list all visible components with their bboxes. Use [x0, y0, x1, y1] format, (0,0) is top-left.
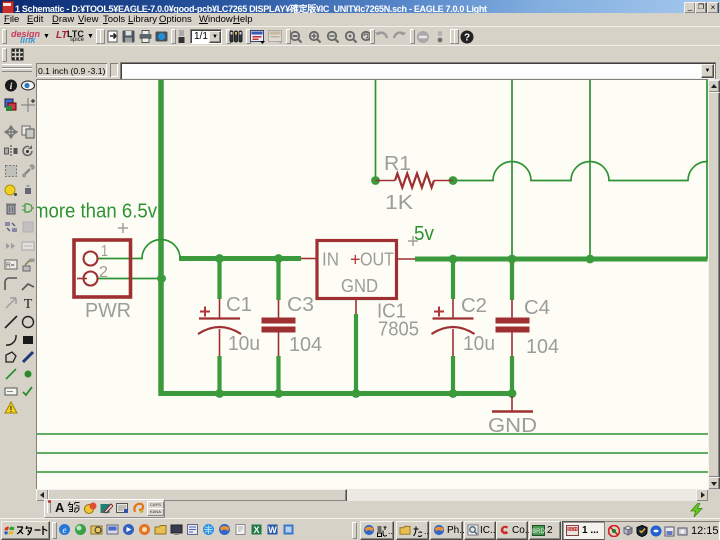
svg-text:GND: GND — [341, 276, 378, 296]
wire — [4, 315, 18, 329]
frame border line 1 — [37, 433, 708, 435]
IC1 input pin stub — [301, 258, 317, 260]
text more than 6.5v — [33, 200, 158, 223]
design link logo — [11, 29, 40, 39]
name — [21, 239, 35, 253]
svg-text:104: 104 — [289, 334, 322, 356]
svg-text:2: 2 — [99, 264, 108, 281]
miter — [4, 277, 18, 291]
svg-text:IN: IN — [322, 250, 339, 270]
command input — [120, 62, 716, 80]
invoke — [4, 296, 18, 310]
copy — [21, 125, 35, 139]
text 5v — [414, 223, 434, 245]
svg-text:!: ! — [10, 405, 13, 414]
wire GND vertical thick — [158, 79, 164, 392]
value 10u C2 — [463, 333, 495, 355]
svg-text:SCH: SCH — [568, 527, 578, 532]
layers icon — [229, 30, 243, 43]
pin label +OUT — [350, 250, 394, 270]
wire input rail VIN — [179, 256, 301, 261]
svg-text:C4: C4 — [524, 297, 550, 319]
wire vertical net at C4 column — [511, 79, 513, 259]
label GND net — [488, 415, 537, 437]
tray — [604, 521, 720, 540]
grid icon — [11, 48, 24, 61]
brd icon (disabled) — [268, 30, 284, 44]
info — [4, 79, 18, 92]
cut — [4, 183, 18, 197]
rotate — [21, 144, 35, 158]
5v origin cross — [408, 236, 418, 246]
IME bar — [44, 499, 165, 518]
wire C2 bottom pin — [451, 356, 455, 393]
paste — [21, 183, 35, 197]
svg-text:?: ? — [464, 33, 470, 44]
sch icon — [250, 30, 266, 44]
rect tool — [21, 333, 35, 347]
svg-text:C2: C2 — [461, 295, 487, 317]
print icon — [139, 30, 152, 43]
LTC logo — [56, 30, 67, 41]
junction PWR pin2 to GND line — [157, 274, 166, 283]
wire C4 top pin — [510, 260, 514, 300]
arc tool — [4, 333, 18, 347]
label PWR — [85, 300, 131, 322]
svg-text:BRD: BRD — [532, 529, 545, 535]
change wrench — [21, 164, 35, 178]
junction R1 right node — [449, 176, 458, 185]
wire C3 top pin — [276, 259, 280, 300]
open icon — [107, 30, 120, 43]
move — [4, 125, 18, 139]
junction C2 top — [449, 255, 458, 264]
wire PWR pin1 net with hop over GND line — [97, 240, 180, 259]
junction mid column at +5V bus — [586, 255, 595, 264]
label C3 — [287, 294, 314, 316]
save icon — [122, 30, 135, 43]
PWR origin cross — [118, 223, 128, 233]
junction C3 bottom — [274, 389, 283, 398]
zoom icons — [289, 30, 303, 44]
svg-text:7805: 7805 — [378, 319, 419, 341]
split — [21, 277, 35, 291]
svg-text:W: W — [268, 525, 277, 535]
junction R1 left node — [371, 176, 380, 185]
coordinate box — [36, 63, 107, 77]
pin label IN — [322, 250, 339, 270]
pinswap — [4, 220, 18, 234]
svg-text:C3: C3 — [287, 294, 314, 316]
ground symbol — [492, 396, 533, 412]
frame border line 3 — [37, 471, 708, 473]
wire IC1 ground pin — [354, 314, 358, 393]
delete — [4, 201, 18, 215]
svg-text:C1: C1 — [226, 294, 252, 316]
svg-text:1K: 1K — [385, 192, 414, 214]
svg-text:GND: GND — [488, 415, 537, 437]
label C1 — [226, 294, 252, 316]
add — [21, 201, 35, 215]
canvas sunken edges — [36, 79, 37, 489]
svg-text:R=: R= — [6, 262, 15, 269]
wire +5V bus — [415, 257, 708, 262]
sheet combo — [190, 29, 222, 44]
value — [4, 258, 18, 272]
smash — [21, 258, 35, 272]
wire C1 top pin — [217, 259, 221, 299]
help — [460, 30, 474, 44]
svg-text:10u: 10u — [463, 333, 495, 355]
IC1 output pin stub — [397, 258, 416, 260]
mark — [21, 98, 35, 112]
display — [4, 98, 18, 112]
capacitor C3 ceramic — [262, 300, 296, 356]
junction C4 top — [508, 255, 517, 264]
junction tool — [21, 367, 35, 381]
text tool — [21, 296, 35, 310]
label IC1 — [377, 301, 406, 323]
svg-text:e: e — [63, 525, 67, 535]
replace (faded) — [21, 220, 35, 234]
bus tool — [21, 350, 35, 364]
capacitor C1 electrolytic — [198, 299, 241, 356]
value 1K — [385, 192, 414, 214]
value 7805 — [378, 319, 419, 341]
svg-text:OUT: OUT — [360, 250, 394, 270]
wire vertical net right edge — [706, 79, 708, 259]
connector PWR — [74, 240, 131, 297]
wire PWR pin2 net — [97, 278, 161, 280]
pin label GND — [341, 276, 378, 296]
capacitor C4 ceramic — [496, 300, 530, 356]
pin number 1 — [101, 243, 108, 260]
label C4 — [524, 297, 550, 319]
svg-text:T: T — [24, 297, 33, 310]
label tool — [4, 384, 18, 398]
circle tool — [21, 315, 35, 329]
undo redo — [374, 31, 389, 42]
wire C2 top pin — [451, 260, 455, 299]
show eye — [21, 80, 35, 91]
regulator IC1 box — [317, 241, 397, 299]
wire C4 bottom pin — [510, 356, 514, 393]
erc — [21, 384, 35, 398]
label R1 — [384, 153, 411, 175]
junction C1 top — [215, 254, 224, 263]
svg-text:PWR: PWR — [85, 300, 131, 322]
mirror — [4, 144, 18, 158]
capacitor C2 electrolytic — [432, 299, 475, 356]
task buttons — [360, 521, 394, 540]
label C2 — [461, 295, 487, 317]
wire GND bottom bus — [158, 391, 514, 396]
cam icon — [155, 30, 168, 43]
wire C1 bottom pin — [217, 356, 221, 393]
group — [4, 164, 18, 178]
junction C2 bottom — [449, 389, 458, 398]
gateswap — [4, 239, 18, 253]
stop — [416, 30, 430, 44]
junction C1 bottom — [215, 389, 224, 398]
lightning button — [688, 503, 706, 517]
svg-text:R1: R1 — [384, 153, 411, 175]
resistor R1 — [376, 174, 454, 188]
polygon tool — [4, 350, 18, 364]
svg-text:1: 1 — [101, 243, 108, 260]
wire vertical net mid column — [589, 79, 591, 259]
junction C4 bottom — [508, 389, 517, 398]
svg-text:more than 6.5v: more than 6.5v — [36, 200, 158, 223]
svg-text:10u: 10u — [228, 333, 260, 355]
frame border line 2 — [37, 452, 708, 454]
wire C3 bottom pin — [276, 356, 280, 393]
value 10u — [228, 333, 260, 355]
errors — [4, 401, 18, 415]
traffic dots — [436, 30, 444, 44]
sheet icon — [177, 30, 186, 43]
start button — [1, 521, 50, 540]
svg-text:X: X — [253, 525, 259, 535]
wire R1 output net with hops — [453, 162, 720, 181]
junction IC1 gnd bottom — [352, 389, 361, 398]
svg-text:+: + — [350, 250, 361, 270]
value 104 C4 — [526, 336, 559, 358]
wire vertical net to R1 left — [375, 79, 377, 181]
quick launch icons — [58, 523, 71, 536]
net tool — [4, 367, 18, 381]
junction C3 top — [274, 254, 283, 263]
IC1 gnd pin stub — [355, 299, 357, 315]
pin number 2 — [99, 264, 108, 281]
value 104 — [289, 334, 322, 356]
svg-text:104: 104 — [526, 336, 559, 358]
